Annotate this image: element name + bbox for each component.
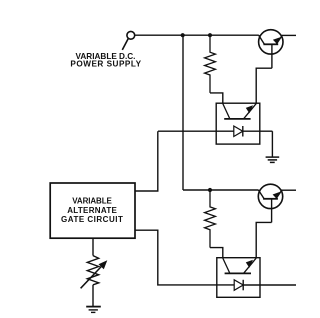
svg-text:POWER SUPPLY: POWER SUPPLY <box>70 59 141 68</box>
gate circuit block <box>50 183 135 238</box>
wire: U1 cathode to ground <box>271 131 273 157</box>
wire: gate output 2 to U2 LED anode <box>135 230 234 285</box>
optocoupler U2 package <box>217 258 260 298</box>
wire: riser from top rail down to lower rail <box>182 35 184 190</box>
wire: gate bottom to variable resistor <box>92 238 94 255</box>
power supply terminal circle <box>122 31 134 50</box>
resistor R2 <box>205 190 216 248</box>
wire: gate output 1 to U1 LED anode <box>135 131 158 191</box>
wire: variable resistor to ground <box>92 285 94 306</box>
optocoupler U2 LED diode <box>234 280 296 291</box>
optocoupler U2 phototransistor <box>223 258 256 273</box>
resistor R1 <box>205 35 216 93</box>
optocoupler U1 LED diode <box>158 126 272 137</box>
variable resistor VR1 <box>81 256 108 289</box>
label VARIABLE D.C. POWER SUPPLY <box>70 52 141 69</box>
optocoupler U1 package <box>216 103 260 144</box>
transistor Q2 <box>258 184 282 222</box>
wire: top supply rail <box>135 34 296 36</box>
ground (circuit 1) <box>266 157 280 162</box>
svg-text:VARIABLE: VARIABLE <box>72 196 112 205</box>
wire: lower rail <box>183 189 296 191</box>
wire: R2 to optocoupler U2 <box>210 248 223 259</box>
node: junction dot rail/R1 <box>208 33 212 37</box>
node: junction dot rail/riser <box>181 33 185 37</box>
transistor Q1 <box>259 30 283 68</box>
node: junction dot lower rail/R2 <box>208 188 212 192</box>
svg-text:GATE CIRCUIT: GATE CIRCUIT <box>61 215 123 224</box>
optocoupler U1 phototransistor <box>223 104 256 119</box>
ground (below variable resistor) <box>86 307 101 313</box>
wire: Q1 collector jog to U1 <box>256 68 272 103</box>
wire: Q2 collector jog to U2 <box>256 222 271 258</box>
wire: R1 to optocoupler U1 <box>210 93 223 104</box>
label VARIABLE ALTERNATE GATE CIRCUIT <box>61 196 123 224</box>
svg-text:ALTERNATE: ALTERNATE <box>67 206 117 215</box>
